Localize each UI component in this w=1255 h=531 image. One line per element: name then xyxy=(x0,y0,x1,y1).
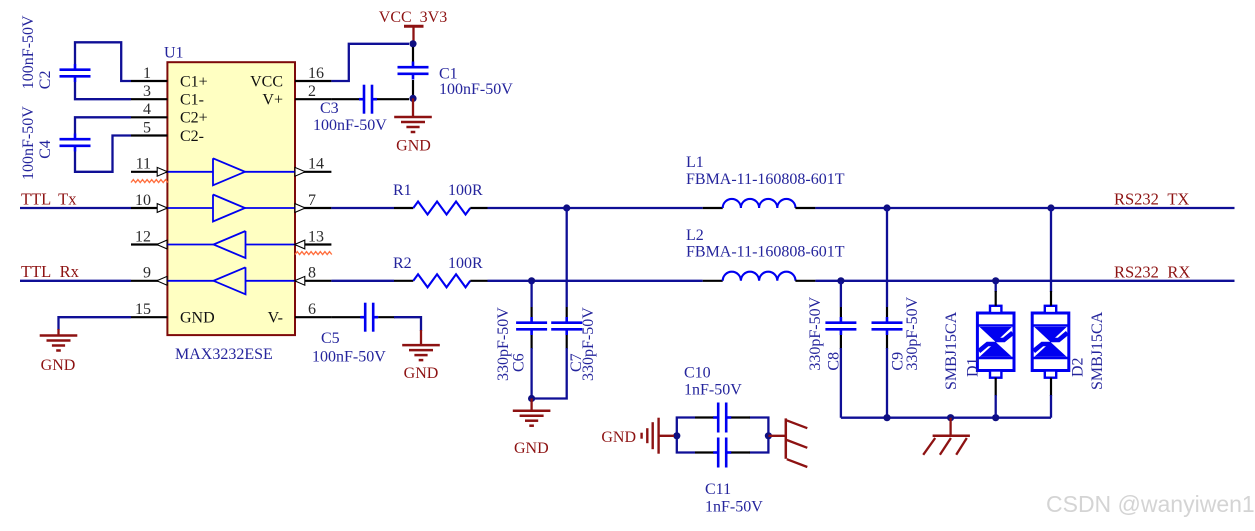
wire C9 branch xyxy=(886,208,888,317)
earth ground below bus xyxy=(923,418,970,455)
svg-text:100nF-50V: 100nF-50V xyxy=(20,15,37,89)
node C6/C7 ground junction xyxy=(528,395,535,402)
wire TTL_Rx xyxy=(20,280,131,282)
C10 designator xyxy=(684,364,711,381)
capacitor C2 xyxy=(60,64,91,82)
svg-text:12: 12 xyxy=(135,228,151,245)
pin 9 stub xyxy=(131,280,167,282)
svg-text:R1: R1 xyxy=(393,182,412,199)
capacitor C11 xyxy=(713,438,731,468)
resistor R1 xyxy=(394,202,488,215)
R1 value 100R xyxy=(448,182,483,199)
pin 6 number xyxy=(308,301,316,318)
C6 designator xyxy=(511,353,528,372)
C2 value 100nF-50V xyxy=(20,15,37,89)
svg-text:C3: C3 xyxy=(320,100,339,117)
wire R2 to L2 xyxy=(488,280,703,282)
pin 4 stub xyxy=(131,116,167,118)
power port GND at C10 xyxy=(601,418,674,454)
node TX/C7 junction xyxy=(563,204,570,211)
pin 16 number xyxy=(308,65,324,82)
wire pin15 to GND xyxy=(59,317,132,330)
svg-text:RS232TX: RS232TX xyxy=(1114,190,1189,209)
node RX/D1 junction xyxy=(992,277,999,284)
svg-text:GND: GND xyxy=(601,429,636,446)
C6 value 330pF-50V xyxy=(495,307,512,381)
node C9/bus junction xyxy=(883,414,890,421)
L2 value FBMA-11-160808-601T xyxy=(686,244,845,261)
wire C7 branch xyxy=(566,208,568,317)
D2 wires xyxy=(1050,208,1052,418)
svg-text:GND: GND xyxy=(396,137,431,154)
svg-text:10: 10 xyxy=(135,192,151,209)
svg-text:C11: C11 xyxy=(705,481,731,498)
pin name VCC xyxy=(250,73,283,90)
capacitor C4 xyxy=(60,134,91,152)
pin 11 number xyxy=(136,156,151,173)
svg-text:L1: L1 xyxy=(686,154,704,171)
pin 14 output arrow xyxy=(295,167,305,176)
wire C4 top to pin 4 xyxy=(75,117,131,133)
C9 designator xyxy=(890,352,907,371)
pin 8 input arrow xyxy=(295,276,305,285)
pin 3 stub xyxy=(131,98,167,100)
node TX/C9 junction xyxy=(883,204,890,211)
svg-text:330pF-50V: 330pF-50V xyxy=(904,296,921,370)
svg-text:SMBJ15CA: SMBJ15CA xyxy=(1089,311,1106,390)
pin name V- xyxy=(268,310,283,327)
op-amp U1 MAX3232ESE body xyxy=(167,62,295,335)
C5 value 100nF-50V xyxy=(312,349,386,366)
svg-text:SMBJ15CA: SMBJ15CA xyxy=(943,311,960,390)
wire C2 top to pin 1 xyxy=(75,42,131,81)
pin name C2+ xyxy=(180,110,208,127)
pin 9 output arrow xyxy=(157,276,167,285)
D1 wires xyxy=(995,281,997,418)
svg-text:100R: 100R xyxy=(448,182,483,199)
svg-text:GND: GND xyxy=(41,357,76,374)
pin 9 number xyxy=(143,265,151,282)
pin 12 number xyxy=(135,228,151,245)
svg-text:15: 15 xyxy=(135,301,151,318)
C2 designator xyxy=(37,71,54,90)
U1 comment MAX3232ESE xyxy=(175,346,273,363)
pin 15 stub xyxy=(131,316,167,318)
buffer R2in U1 xyxy=(167,267,295,294)
svg-text:2: 2 xyxy=(308,83,316,100)
svg-text:L2: L2 xyxy=(686,227,704,244)
L2 designator xyxy=(686,227,704,244)
buffer T1 in U1 xyxy=(167,158,295,185)
svg-text:13: 13 xyxy=(308,228,324,245)
L1 value FBMA-11-160808-601T xyxy=(686,171,845,188)
net label RS232_TX xyxy=(1114,190,1189,209)
pin name C1+ xyxy=(180,73,208,90)
svg-text:1nF-50V: 1nF-50V xyxy=(705,499,763,516)
net label TTL_Tx xyxy=(21,189,77,208)
D2 value SMBJ15CA xyxy=(1089,311,1106,390)
svg-text:16: 16 xyxy=(308,65,324,82)
pin 1 number xyxy=(143,65,151,82)
wire pin8 to R2 xyxy=(331,280,394,282)
C11 value 1nF-50V xyxy=(705,499,763,516)
pin 4 number xyxy=(143,101,151,118)
svg-text:V-: V- xyxy=(268,310,283,327)
net label TTL_Rx xyxy=(21,262,80,281)
R2 designator xyxy=(393,255,412,272)
svg-text:100R: 100R xyxy=(448,255,483,272)
pin name C1- xyxy=(180,92,204,109)
wire pin7 to R1 xyxy=(331,207,394,209)
pin 15 number xyxy=(135,301,151,318)
svg-text:9: 9 xyxy=(143,265,151,282)
error squiggle under pin 13 xyxy=(295,252,332,255)
pin 11 stub xyxy=(131,171,167,173)
node TX/D2 junction xyxy=(1047,204,1054,211)
C3 designator xyxy=(320,100,339,117)
node C10 left junction xyxy=(673,432,680,439)
pin 8 number xyxy=(308,265,316,282)
svg-text:100nF-50V: 100nF-50V xyxy=(20,106,37,180)
pin 10 stub xyxy=(131,207,167,209)
U1 designator xyxy=(164,45,184,62)
svg-text:D1: D1 xyxy=(965,357,982,377)
C3 value 100nF-50V xyxy=(313,117,387,134)
pin 13 input arrow xyxy=(295,240,305,249)
pin name V+ xyxy=(262,92,283,109)
buffer T2 in U1 xyxy=(167,195,295,222)
svg-text:1: 1 xyxy=(143,65,151,82)
svg-text:C2: C2 xyxy=(37,71,54,90)
svg-text:FBMA-11-160808-601T: FBMA-11-160808-601T xyxy=(686,244,845,261)
svg-text:CSDN @wanyiwen1: CSDN @wanyiwen1 xyxy=(1046,491,1255,517)
svg-text:330pF-50V: 330pF-50V xyxy=(807,296,824,370)
GND label below C6/C7 xyxy=(514,440,549,457)
wire L1 to RS232_TX xyxy=(815,207,1234,209)
capacitor C5 xyxy=(331,303,395,332)
TVS diode D1 xyxy=(977,306,1014,378)
svg-text:8: 8 xyxy=(308,265,316,282)
pin 5 stub xyxy=(131,134,167,136)
node earth/bus junction xyxy=(947,414,954,421)
svg-text:4: 4 xyxy=(143,101,151,118)
wire C8 branch xyxy=(840,281,842,317)
C1 designator xyxy=(439,66,458,83)
svg-text:C4: C4 xyxy=(37,140,54,159)
wire C7 bottom xyxy=(532,335,567,399)
pin 13 stub xyxy=(295,243,331,245)
wire C6 branch xyxy=(530,281,532,317)
capacitor C7 xyxy=(551,317,582,335)
watermark xyxy=(1046,491,1255,517)
pin 12 stub xyxy=(131,243,167,245)
svg-text:C1+: C1+ xyxy=(180,73,208,90)
svg-text:C10: C10 xyxy=(684,364,711,381)
C4 designator xyxy=(37,140,54,159)
svg-text:14: 14 xyxy=(308,156,324,173)
ground GND bottom-left xyxy=(40,329,78,351)
svg-text:MAX3232ESE: MAX3232ESE xyxy=(175,346,273,363)
svg-text:C1-: C1- xyxy=(180,92,204,109)
wire TTL_Tx xyxy=(20,207,131,209)
C10 value 1nF-50V xyxy=(684,382,742,399)
svg-text:FBMA-11-160808-601T: FBMA-11-160808-601T xyxy=(686,171,845,188)
node RX/C6 junction xyxy=(528,277,535,284)
wire C8 bottom xyxy=(840,335,842,418)
wire C4 bottom to pin 5 xyxy=(75,136,131,172)
svg-text:V+: V+ xyxy=(262,92,283,109)
pin 2 stub xyxy=(295,98,331,100)
pin 10 input arrow xyxy=(157,204,167,213)
D1 designator xyxy=(965,357,982,377)
pin 5 number xyxy=(143,119,151,136)
C8 value 330pF-50V xyxy=(807,296,824,370)
wire R1 to L1 xyxy=(488,207,703,209)
C11 designator xyxy=(705,481,731,498)
TVS diode D2 xyxy=(1032,306,1069,378)
power port VCC_3V3 bar xyxy=(404,26,424,44)
power port VCC_3V3 label xyxy=(379,9,447,26)
svg-text:1nF-50V: 1nF-50V xyxy=(684,382,742,399)
inductor L2 ferrite bead xyxy=(703,272,816,281)
wire L2 to RS232_RX xyxy=(815,280,1234,282)
pin 7 stub xyxy=(295,207,331,209)
svg-text:5: 5 xyxy=(143,119,151,136)
svg-text:GND: GND xyxy=(514,440,549,457)
node D1/bus junction xyxy=(992,414,999,421)
node C1/C3/GND junction xyxy=(409,95,416,102)
node VCC junction xyxy=(409,40,416,47)
svg-text:U1: U1 xyxy=(164,45,184,62)
pin 10 number xyxy=(135,192,151,209)
R1 designator xyxy=(393,182,412,199)
svg-text:GND: GND xyxy=(180,310,215,327)
capacitor C1 xyxy=(398,47,429,95)
L1 designator xyxy=(686,154,704,171)
resistor R2 xyxy=(394,274,488,287)
R2 value 100R xyxy=(448,255,483,272)
D1 value SMBJ15CA xyxy=(943,311,960,390)
wire ground bus xyxy=(841,417,1051,419)
svg-text:C8: C8 xyxy=(826,352,843,371)
svg-text:VCC: VCC xyxy=(250,73,283,90)
svg-text:C6: C6 xyxy=(511,353,528,372)
capacitor C10 xyxy=(713,403,731,433)
pin 14 number xyxy=(308,156,324,173)
ground GND below C1 xyxy=(394,98,432,132)
pin name C2- xyxy=(180,128,204,145)
svg-text:C5: C5 xyxy=(321,330,340,347)
capacitor C6 xyxy=(516,317,547,335)
pin 16 stub xyxy=(295,80,331,82)
pin name GND xyxy=(180,310,215,327)
earth ground at C11 right xyxy=(768,418,807,467)
node C10 right junction xyxy=(765,432,772,439)
svg-text:100nF-50V: 100nF-50V xyxy=(313,117,387,134)
svg-text:6: 6 xyxy=(308,301,316,318)
svg-text:100nF-50V: 100nF-50V xyxy=(439,81,513,98)
svg-text:3: 3 xyxy=(143,83,151,100)
pin 12 output arrow xyxy=(157,240,167,249)
svg-text:TTLTx: TTLTx xyxy=(21,189,77,208)
svg-text:330pF-50V: 330pF-50V xyxy=(580,307,597,381)
svg-text:D2: D2 xyxy=(1070,357,1087,377)
pin 6 stub xyxy=(295,316,331,318)
capacitor C3 xyxy=(331,85,409,114)
ground GND below C5 xyxy=(402,330,440,360)
pin 3 number xyxy=(143,83,151,100)
C5 designator xyxy=(321,330,340,347)
GND label below C5 xyxy=(404,365,439,382)
wire C5 to GND xyxy=(394,317,421,331)
svg-text:7: 7 xyxy=(308,192,316,209)
GND label below C1 xyxy=(396,137,431,154)
svg-text:330pF-50V: 330pF-50V xyxy=(495,307,512,381)
ground GND below C6/C7 xyxy=(513,399,551,426)
C4 value 100nF-50V xyxy=(20,106,37,180)
wire C6 bottom xyxy=(530,335,532,399)
pin 1 stub xyxy=(131,80,167,82)
pin 11 input arrow xyxy=(157,167,167,176)
D2 designator xyxy=(1070,357,1087,377)
svg-text:C2-: C2- xyxy=(180,128,204,145)
C9 value 330pF-50V xyxy=(904,296,921,370)
net label RS232_RX xyxy=(1114,263,1190,282)
wire C10/C11 loop xyxy=(677,418,769,453)
inductor L1 ferrite bead xyxy=(703,199,816,208)
wire pin16 to VCC node xyxy=(331,44,409,81)
svg-text:11: 11 xyxy=(136,156,151,173)
C7 designator xyxy=(568,353,585,372)
svg-text:C2+: C2+ xyxy=(180,110,208,127)
C7 value 330pF-50V xyxy=(580,307,597,381)
buffer R1in U1 xyxy=(167,231,295,258)
svg-text:R2: R2 xyxy=(393,255,412,272)
wire C2 bottom to pin 3 xyxy=(75,82,131,99)
C1 value 100nF-50V xyxy=(439,81,513,98)
error squiggle under pin 11 xyxy=(131,180,168,183)
svg-text:100nF-50V: 100nF-50V xyxy=(312,349,386,366)
pin 13 number xyxy=(308,228,324,245)
capacitor C9 xyxy=(872,317,903,335)
svg-text:GND: GND xyxy=(404,365,439,382)
pin 7 number xyxy=(308,192,316,209)
GND label bottom-left xyxy=(41,357,76,374)
pin 8 stub xyxy=(295,280,331,282)
wire C9 bottom xyxy=(886,335,888,418)
pin 14 stub xyxy=(295,171,331,173)
pin 7 output arrow xyxy=(295,204,305,213)
svg-text:TTLRx: TTLRx xyxy=(21,262,80,281)
pin 2 number xyxy=(308,83,316,100)
svg-text:RS232RX: RS232RX xyxy=(1114,263,1190,282)
capacitor C8 xyxy=(825,317,856,335)
node RX/C8 junction xyxy=(837,277,844,284)
C8 designator xyxy=(826,352,843,371)
